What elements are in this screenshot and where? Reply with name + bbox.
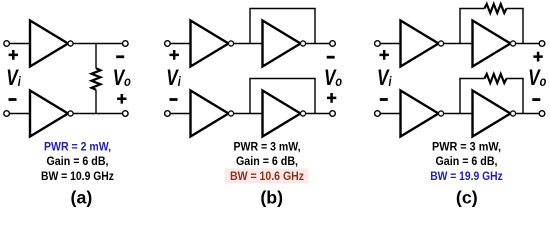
svg-text:Gain = 6 dB,: Gain = 6 dB, (236, 154, 298, 168)
svg-text:Vi: Vi (377, 66, 392, 91)
svg-text:BW = 10.9 GHz: BW = 10.9 GHz (41, 169, 114, 183)
svg-text:BW = 19.9 GHz: BW = 19.9 GHz (430, 169, 503, 183)
svg-text:(b): (b) (260, 187, 283, 207)
svg-text:Gain = 6 dB,: Gain = 6 dB, (47, 154, 109, 168)
svg-text:(a): (a) (71, 187, 93, 207)
svg-text:BW = 10.6 GHz: BW = 10.6 GHz (230, 169, 304, 183)
svg-text:PWR = 3 mW,: PWR = 3 mW, (234, 140, 301, 154)
svg-text:PWR = 2 mW,: PWR = 2 mW, (44, 140, 111, 154)
svg-text:Vi: Vi (166, 66, 181, 91)
svg-text:Vo: Vo (528, 66, 546, 91)
svg-text:Vi: Vi (6, 66, 21, 91)
svg-text:Gain = 6 dB,: Gain = 6 dB, (436, 154, 498, 168)
svg-text:(c): (c) (456, 187, 478, 207)
svg-text:Vo: Vo (324, 66, 342, 91)
svg-text:PWR = 3 mW,: PWR = 3 mW, (432, 140, 501, 154)
svg-text:Vo: Vo (113, 66, 131, 91)
